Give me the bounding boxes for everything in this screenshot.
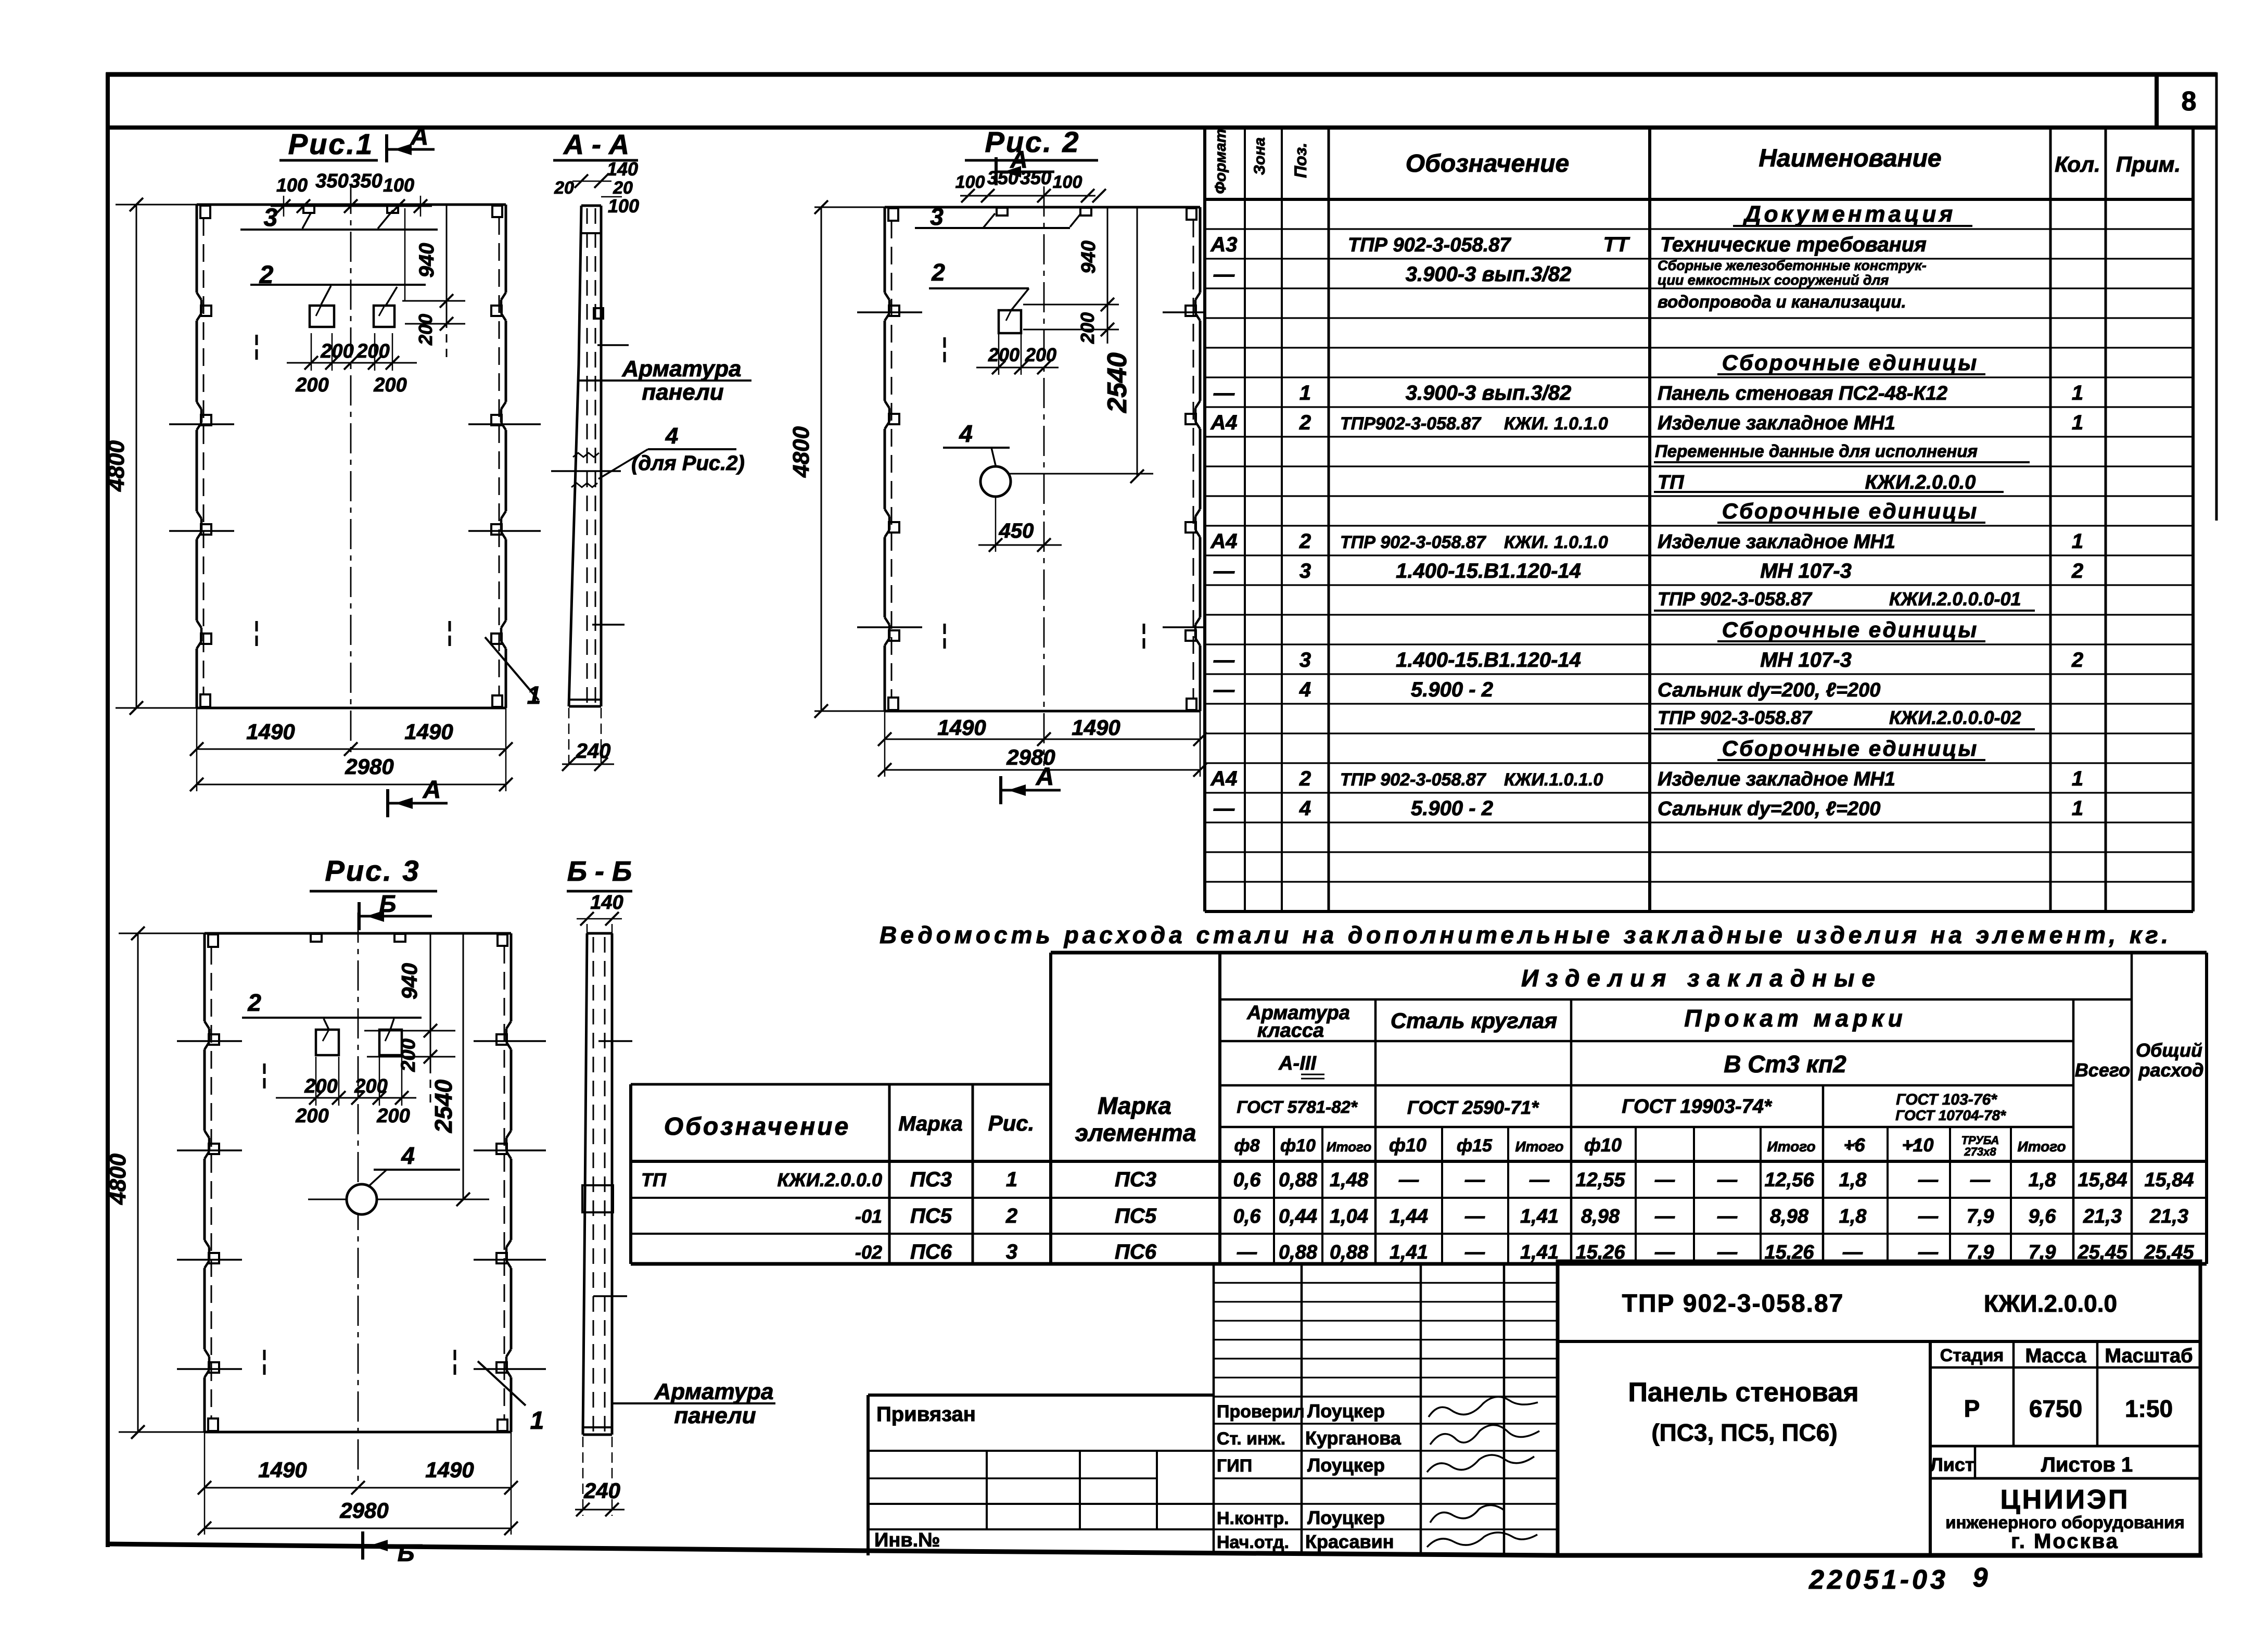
svg-text:350: 350 [1020, 167, 1051, 188]
svg-text:—: — [1213, 797, 1235, 820]
svg-text:1,44: 1,44 [1390, 1206, 1428, 1227]
svg-text:15,84: 15,84 [2144, 1169, 2194, 1191]
svg-text:940: 940 [415, 243, 438, 278]
svg-text:Масса: Масса [2025, 1345, 2086, 1367]
fig3 940 200 dims [364, 1030, 455, 1032]
svg-text:ф8: ф8 [1234, 1136, 1260, 1156]
fig3 4800 dimension [119, 933, 205, 934]
svg-text:240: 240 [583, 1478, 620, 1503]
svg-text:ф10: ф10 [1584, 1134, 1622, 1156]
svg-text:3: 3 [264, 204, 278, 232]
svg-text:Нач.отд.: Нач.отд. [1217, 1532, 1289, 1552]
svg-text:ПС6: ПС6 [910, 1240, 952, 1263]
svg-text:—: — [1464, 1242, 1485, 1263]
svg-text:3.900-3 вып.3/82: 3.900-3 вып.3/82 [1406, 263, 1572, 286]
svg-text:Рис. 2: Рис. 2 [985, 125, 1080, 158]
svg-text:2: 2 [931, 259, 945, 286]
svg-text:Итого: Итого [1515, 1138, 1563, 1155]
svg-text:—: — [1717, 1169, 1738, 1191]
svg-text:7,9: 7,9 [1967, 1206, 1994, 1227]
svg-text:г. Москва: г. Москва [2011, 1530, 2119, 1553]
svg-text:4800: 4800 [788, 426, 814, 478]
svg-text:Формат: Формат [1212, 129, 1229, 194]
fig3 item 1 leader [478, 1361, 526, 1405]
svg-text:А4: А4 [1210, 411, 1237, 434]
fig2 salnik circle item 4 [980, 466, 1011, 497]
fig1 4800 dimension [116, 204, 197, 206]
svg-text:1,8: 1,8 [2029, 1169, 2057, 1191]
svg-text:1: 1 [1299, 382, 1311, 404]
svg-text:ПС5: ПС5 [910, 1205, 952, 1227]
fig3 salnik circle item 4 [347, 1184, 377, 1214]
svg-text:1,8: 1,8 [1839, 1169, 1867, 1191]
svg-text:ГОСТ 10704-78*: ГОСТ 10704-78* [1895, 1107, 2006, 1123]
panel corner squares [200, 206, 210, 218]
svg-text:2: 2 [2071, 560, 2083, 582]
svg-text:4: 4 [401, 1142, 415, 1169]
panel top anchor squares [311, 934, 322, 942]
svg-text:200: 200 [988, 344, 1020, 365]
svg-text:0,6: 0,6 [1233, 1169, 1262, 1191]
svg-text:1490: 1490 [425, 1458, 474, 1482]
svg-text:Арматура: Арматура [622, 356, 742, 382]
svg-text:А: А [423, 776, 441, 804]
svg-text:4800: 4800 [104, 440, 129, 492]
section A-A outline [581, 205, 601, 207]
svg-text:Сборочные единицы: Сборочные единицы [1722, 350, 1978, 375]
armatura paneli label B-B [612, 1402, 775, 1404]
section A-A right edge notch [594, 308, 603, 319]
svg-text:Красавин: Красавин [1305, 1531, 1394, 1552]
svg-text:ГОСТ 19903-74*: ГОСТ 19903-74* [1622, 1096, 1773, 1118]
svg-text:1,41: 1,41 [1520, 1206, 1559, 1227]
svg-text:ТПР 902-3-058.87: ТПР 902-3-058.87 [1340, 533, 1487, 552]
svg-text:ПС3: ПС3 [1115, 1168, 1156, 1191]
svg-text:Курганова: Курганова [1305, 1427, 1401, 1449]
fig3 embed squares [316, 1030, 339, 1055]
svg-text:Зона: Зона [1251, 137, 1268, 175]
svg-text:1: 1 [2072, 530, 2083, 553]
fig1 item 1 leader [485, 637, 539, 700]
svg-text:350: 350 [349, 170, 382, 192]
section A-A 240 dim [568, 708, 570, 769]
svg-text:В Ст3 кп2: В Ст3 кп2 [1724, 1050, 1846, 1078]
svg-text:панели: панели [642, 379, 723, 405]
svg-text:3: 3 [1299, 560, 1311, 582]
svg-text:МН 107-3: МН 107-3 [1760, 649, 1852, 672]
section A-A break marks [573, 453, 599, 457]
svg-text:—: — [1398, 1169, 1419, 1191]
svg-text:Технические требования: Технические требования [1660, 233, 1927, 256]
svg-text:панели: панели [674, 1403, 756, 1428]
svg-text:Арматура: Арматура [654, 1379, 774, 1404]
section A-A inner dashed lines [587, 208, 588, 703]
svg-text:1490: 1490 [258, 1458, 307, 1482]
svg-text:8: 8 [2182, 86, 2197, 117]
svg-text:Изделие закладное МН1: Изделие закладное МН1 [1658, 412, 1895, 434]
svg-text:200: 200 [295, 374, 328, 396]
section A-A crossing marks [597, 344, 629, 346]
svg-text:ГОСТ 5781-82*: ГОСТ 5781-82* [1237, 1097, 1358, 1117]
svg-text:расход: расход [2138, 1059, 2204, 1081]
svg-text:100: 100 [276, 174, 308, 196]
svg-text:ПС5: ПС5 [1115, 1205, 1157, 1227]
fig2 2540 dim [1137, 207, 1138, 476]
svg-text:инженерного оборудования: инженерного оборудования [1945, 1513, 2184, 1532]
svg-text:Всего: Всего [2075, 1059, 2130, 1081]
svg-text:—: — [1213, 263, 1235, 286]
svg-text:200: 200 [398, 1038, 419, 1072]
svg-text:12,56: 12,56 [1764, 1169, 1814, 1191]
svg-text:А: А [1036, 763, 1054, 791]
svg-text:ТП: ТП [1658, 472, 1684, 493]
svg-text:1: 1 [527, 682, 541, 710]
svg-text:1,48: 1,48 [1330, 1169, 1369, 1191]
svg-text:Документация: Документация [1742, 201, 1956, 227]
svg-text:-02: -02 [855, 1242, 882, 1263]
svg-text:1490: 1490 [1072, 715, 1120, 740]
svg-text:КЖИ.2.0.0.0: КЖИ.2.0.0.0 [778, 1169, 883, 1190]
svg-text:4: 4 [1299, 678, 1311, 701]
svg-text:1.400-15.В1.120-14: 1.400-15.В1.120-14 [1396, 560, 1581, 582]
svg-text:—: — [1529, 1169, 1550, 1191]
svg-text:Обозначение: Обозначение [664, 1113, 850, 1141]
fig1 embed squares item 2 [310, 306, 334, 327]
fig1 section mark A bottom [386, 789, 389, 817]
svg-text:—: — [1213, 382, 1235, 404]
stamp left part [868, 1394, 1214, 1397]
svg-text:(для Рис.2): (для Рис.2) [631, 452, 745, 475]
svg-text:8,98: 8,98 [1581, 1206, 1620, 1227]
svg-text:1: 1 [2072, 382, 2083, 404]
svg-text:200: 200 [295, 1105, 328, 1127]
svg-text:—: — [1213, 649, 1235, 672]
svg-text:—: — [1654, 1206, 1675, 1227]
svg-text:Панель стеновая ПС2-48-К12: Панель стеновая ПС2-48-К12 [1658, 383, 1947, 404]
svg-text:ГОСТ 2590-71*: ГОСТ 2590-71* [1407, 1097, 1539, 1118]
svg-text:ф15: ф15 [1457, 1136, 1493, 1156]
svg-text:Лоуцкер: Лоуцкер [1307, 1507, 1385, 1528]
svg-text:А-III: А-III [1278, 1053, 1317, 1074]
svg-text:Привязан: Привязан [876, 1403, 976, 1426]
svg-text:Сборочные единицы: Сборочные единицы [1722, 736, 1978, 761]
svg-text:—: — [1213, 560, 1235, 582]
svg-text:ции емкостных сооружений для: ции емкостных сооружений для [1658, 272, 1889, 288]
svg-text:0,88: 0,88 [1279, 1169, 1318, 1191]
fig1 top dimension line [271, 206, 432, 207]
svg-text:-01: -01 [855, 1206, 882, 1227]
svg-text:9,6: 9,6 [2029, 1206, 2057, 1227]
svg-text:ПС3: ПС3 [910, 1168, 952, 1191]
svg-text:Панель стеновая: Панель стеновая [1628, 1377, 1858, 1408]
svg-text:350: 350 [315, 170, 348, 192]
svg-text:21,3: 21,3 [2149, 1206, 2188, 1227]
svg-text:Р: Р [1964, 1395, 1980, 1422]
svg-text:Изделие закладное МН1: Изделие закладное МН1 [1658, 531, 1895, 553]
svg-text:1: 1 [2072, 411, 2083, 434]
svg-text:2980: 2980 [345, 754, 393, 779]
fig1 940 and 200 vertical dims [402, 300, 465, 302]
svg-text:ЦНИИЭП: ЦНИИЭП [2001, 1485, 2130, 1515]
svg-text:0,88: 0,88 [1279, 1242, 1318, 1263]
svg-text:1: 1 [1006, 1168, 1017, 1191]
fig2 4800 dimension [814, 207, 885, 208]
svg-text:+10: +10 [1902, 1134, 1933, 1156]
panel inner dash marks [944, 337, 946, 348]
svg-text:А: А [410, 123, 429, 150]
svg-text:100: 100 [955, 172, 985, 192]
svg-text:Масштаб: Масштаб [2105, 1345, 2193, 1367]
svg-text:—: — [1237, 1242, 1257, 1263]
svg-text:—: — [1213, 678, 1235, 701]
svg-text:А - А: А - А [563, 129, 629, 160]
svg-text:Ст. инж.: Ст. инж. [1217, 1429, 1285, 1449]
svg-text:200: 200 [1077, 312, 1098, 344]
svg-text:класса: класса [1257, 1020, 1324, 1042]
svg-text:4: 4 [665, 423, 678, 449]
svg-text:ф10: ф10 [1280, 1136, 1316, 1156]
svg-text:200: 200 [373, 374, 406, 396]
svg-text:0,6: 0,6 [1233, 1206, 1262, 1227]
svg-text:200: 200 [356, 340, 389, 362]
svg-text:Рис.1: Рис.1 [288, 128, 374, 160]
fig1 bottom dimensions [196, 708, 198, 791]
svg-text:Лоуцкер: Лоуцкер [1307, 1454, 1385, 1476]
svg-text:450: 450 [999, 520, 1034, 542]
svg-text:Сборочные единицы: Сборочные единицы [1722, 499, 1978, 523]
svg-text:МН 107-3: МН 107-3 [1760, 560, 1852, 582]
svg-text:12,55: 12,55 [1575, 1169, 1625, 1191]
svg-text:1.400-15.В1.120-14: 1.400-15.В1.120-14 [1396, 649, 1581, 672]
fig1 section mark A top [385, 134, 388, 162]
svg-text:4: 4 [959, 420, 973, 447]
panel outline [885, 206, 1200, 209]
fig2 940 200 dims right [1023, 304, 1119, 306]
svg-text:—: — [1464, 1169, 1485, 1191]
panel outline [197, 204, 506, 206]
svg-text:Общий: Общий [2136, 1040, 2202, 1061]
svg-text:Переменные данные для исполнен: Переменные данные для исполнения [1655, 441, 1978, 461]
title block frame [1558, 1261, 2200, 1555]
svg-text:273x8: 273x8 [1964, 1145, 1996, 1158]
panel corner squares [888, 208, 898, 221]
label 4 dlya ris2 [648, 448, 736, 450]
svg-text:2: 2 [1299, 767, 1311, 790]
svg-text:Сталь круглая: Сталь круглая [1391, 1008, 1557, 1033]
specification table grid [1203, 128, 1206, 911]
svg-text:А4: А4 [1210, 530, 1237, 553]
svg-text:Итого: Итого [1327, 1139, 1372, 1155]
svg-text:Стадия: Стадия [1940, 1346, 2004, 1365]
steel table grid [1051, 951, 2207, 955]
svg-text:100: 100 [383, 174, 414, 196]
svg-text:Н.контр.: Н.контр. [1217, 1509, 1289, 1528]
section B-B 240 dim [582, 1437, 584, 1516]
panel edge crossing ticks [169, 423, 234, 425]
svg-text:элемента: элемента [1075, 1119, 1196, 1146]
svg-text:Прокат марки: Прокат марки [1684, 1005, 1907, 1032]
panel hidden edge dashed lines [891, 221, 893, 698]
svg-text:А4: А4 [1210, 767, 1237, 790]
svg-text:100: 100 [1053, 172, 1082, 192]
svg-text:Наименование: Наименование [1759, 145, 1941, 172]
svg-text:Итого: Итого [2017, 1138, 2066, 1155]
armatura paneli label A-A [579, 379, 751, 382]
fig3 2540 dim [463, 933, 464, 1199]
svg-text:Обозначение: Обозначение [1406, 150, 1569, 178]
svg-text:5.900 - 2: 5.900 - 2 [1411, 678, 1493, 701]
fig3 section mark B top [358, 902, 361, 930]
sheet frame [106, 72, 2216, 77]
svg-text:200: 200 [354, 1075, 387, 1097]
panel corner squares [208, 934, 218, 947]
panel hidden edge dashed lines [211, 947, 212, 1418]
svg-text:Итого: Итого [1767, 1138, 1815, 1155]
fig3 bottom dimensions [204, 1432, 206, 1535]
svg-text:2: 2 [1005, 1205, 1017, 1227]
svg-text:ГИП: ГИП [1217, 1456, 1252, 1476]
section B-B crossing marks [598, 1040, 632, 1042]
svg-text:9: 9 [1973, 1563, 1988, 1593]
svg-text:1,8: 1,8 [1839, 1206, 1867, 1227]
fig2 section mark A top [995, 157, 998, 185]
svg-text:3: 3 [1006, 1240, 1017, 1263]
svg-text:1,41: 1,41 [1520, 1242, 1559, 1263]
svg-text:140: 140 [607, 158, 638, 180]
section B-B salnik detail [582, 1185, 613, 1212]
panel top anchor squares [997, 208, 1008, 216]
stamp signature rows [1214, 1396, 1558, 1398]
svg-text:водопровода и канализации.: водопровода и канализации. [1658, 292, 1906, 311]
svg-text:6750: 6750 [2029, 1395, 2082, 1422]
svg-text:ТПР 902-3-058.87: ТПР 902-3-058.87 [1340, 770, 1487, 790]
svg-text:940: 940 [397, 963, 422, 999]
svg-text:Инв.№: Инв.№ [874, 1529, 940, 1551]
svg-text:Марка: Марка [898, 1112, 963, 1135]
panel edge crossing ticks [177, 1040, 242, 1042]
svg-text:200: 200 [415, 314, 436, 346]
svg-text:Изделия закладные: Изделия закладные [1521, 965, 1882, 992]
svg-text:Сборочные единицы: Сборочные единицы [1722, 617, 1978, 642]
svg-text:(ПС3, ПС5, ПС6): (ПС3, ПС5, ПС6) [1651, 1419, 1837, 1446]
svg-text:—: — [1970, 1169, 1991, 1191]
svg-text:КЖИ.2.0.0.0: КЖИ.2.0.0.0 [1865, 472, 1976, 493]
svg-text:1: 1 [2072, 797, 2083, 820]
svg-text:Поз.: Поз. [1291, 143, 1310, 178]
sheet number box [2155, 74, 2159, 128]
svg-text:2: 2 [247, 989, 261, 1016]
fig2 embed square [999, 310, 1021, 333]
fig2 200 200 dims below square [976, 367, 1059, 369]
svg-text:ТПР902-3-058.87: ТПР902-3-058.87 [1340, 414, 1482, 434]
svg-text:2540: 2540 [1102, 352, 1132, 413]
svg-text:1: 1 [2072, 767, 2083, 790]
svg-text:21,3: 21,3 [2083, 1206, 2122, 1227]
svg-text:Рис. 3: Рис. 3 [325, 854, 421, 887]
svg-text:4: 4 [1299, 797, 1311, 820]
svg-text:2: 2 [1299, 530, 1311, 553]
section B-B inner dashed lines [593, 937, 594, 1432]
section A-A flange level line [551, 470, 621, 472]
svg-text:КЖИ. 1.0.1.0: КЖИ. 1.0.1.0 [1504, 533, 1608, 552]
svg-text:ТП: ТП [641, 1169, 667, 1190]
svg-text:2540: 2540 [430, 1079, 457, 1133]
svg-text:+6: +6 [1843, 1134, 1865, 1156]
svg-text:Изделие закладное МН1: Изделие закладное МН1 [1658, 768, 1895, 790]
fig3 section mark B bottom [361, 1531, 364, 1560]
svg-text:КЖИ.1.0.1.0: КЖИ.1.0.1.0 [1504, 770, 1603, 790]
svg-text:15,84: 15,84 [2078, 1169, 2127, 1191]
svg-text:Рис.: Рис. [988, 1111, 1035, 1135]
panel centerline [1043, 186, 1045, 766]
fig2 top dimension line [960, 195, 1095, 197]
svg-text:20: 20 [554, 178, 574, 198]
svg-text:2: 2 [1299, 411, 1311, 434]
svg-text:1490: 1490 [937, 715, 986, 740]
svg-text:Сальник dу=200, ℓ=200: Сальник dу=200, ℓ=200 [1658, 679, 1880, 701]
svg-text:100: 100 [608, 195, 639, 217]
svg-text:200: 200 [1025, 344, 1056, 365]
fig2 450 dim [995, 498, 997, 552]
svg-text:ТТ: ТТ [1603, 233, 1630, 256]
svg-text:200: 200 [376, 1105, 410, 1127]
svg-text:3: 3 [930, 203, 944, 230]
svg-text:Б - Б: Б - Б [567, 856, 632, 887]
panel centerline [350, 184, 352, 763]
svg-text:Лист: Лист [1930, 1454, 1974, 1475]
section B-B outline [587, 932, 612, 935]
svg-text:А3: А3 [1210, 233, 1237, 256]
svg-text:140: 140 [590, 892, 623, 914]
svg-text:Листов 1: Листов 1 [2041, 1453, 2133, 1476]
svg-text:Марка: Марка [1098, 1092, 1171, 1119]
svg-text:Проверил: Проверил [1217, 1402, 1305, 1422]
panel top anchor squares [303, 205, 314, 213]
svg-text:ПС6: ПС6 [1115, 1240, 1157, 1263]
svg-text:—: — [1918, 1206, 1939, 1227]
svg-text:0,44: 0,44 [1279, 1206, 1317, 1227]
panel edge crossing ticks [857, 311, 922, 313]
svg-text:Сальник dу=200, ℓ=200: Сальник dу=200, ℓ=200 [1658, 798, 1880, 820]
svg-text:0,88: 0,88 [1330, 1242, 1369, 1263]
svg-text:5.900 - 2: 5.900 - 2 [1411, 797, 1493, 820]
svg-text:—: — [1654, 1169, 1675, 1191]
panel hidden edge dashed lines [203, 218, 205, 694]
svg-text:Ведомость расхода стали на доп: Ведомость расхода стали на дополнительны… [880, 921, 2172, 948]
svg-text:КЖИ.2.0.0.0-01: КЖИ.2.0.0.0-01 [1889, 588, 2021, 610]
svg-text:Кол.: Кол. [2055, 152, 2100, 176]
svg-text:200: 200 [304, 1075, 337, 1097]
svg-text:—: — [1464, 1206, 1485, 1227]
svg-text:940: 940 [1078, 240, 1100, 273]
svg-text:1490: 1490 [246, 719, 295, 744]
svg-text:22051-03: 22051-03 [1808, 1565, 1948, 1595]
fig3 200 dims below squares [276, 1097, 416, 1099]
svg-text:4800: 4800 [105, 1154, 131, 1205]
svg-text:ТПР 902-3-058.87: ТПР 902-3-058.87 [1658, 588, 1813, 610]
panel inner dash marks [256, 335, 258, 345]
svg-text:ТПР 902-3-058.87: ТПР 902-3-058.87 [1348, 234, 1511, 256]
svg-text:КЖИ. 1.0.1.0: КЖИ. 1.0.1.0 [1504, 414, 1608, 434]
svg-text:ТПР 902-3-058.87: ТПР 902-3-058.87 [1622, 1290, 1844, 1318]
svg-text:1,41: 1,41 [1390, 1242, 1428, 1263]
svg-text:2: 2 [2071, 649, 2083, 672]
fig1 200 dims below squares [287, 362, 417, 364]
fig2 bottom dimensions [884, 711, 886, 777]
svg-text:Лоуцкер: Лоуцкер [1307, 1400, 1385, 1422]
svg-text:ф10: ф10 [1389, 1134, 1426, 1156]
svg-text:8,98: 8,98 [1770, 1206, 1809, 1227]
